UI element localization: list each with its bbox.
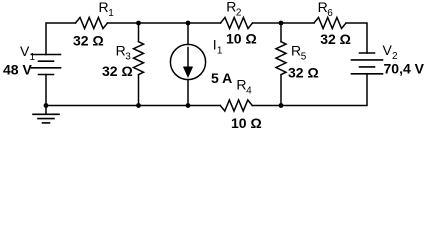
battery V2 plate long bottom (352, 73, 383, 75)
battery V1 top stub (45, 75, 47, 106)
svg-text:R: R (99, 0, 109, 15)
current source I1 arrow shaft (187, 48, 189, 69)
svg-text:R: R (291, 42, 301, 58)
battery V1 plate long (32, 67, 61, 69)
wire top-right corner R6 to V2 (346, 23, 367, 53)
wire R5 bottom lead (280, 76, 282, 106)
wire V2 bottom to bottom-right corner (252, 74, 367, 106)
resistor R3 (134, 42, 144, 75)
svg-text:3: 3 (125, 52, 131, 63)
node R3 bottom (136, 103, 141, 108)
current source I1 arrow head (183, 67, 193, 79)
svg-text:32 Ω: 32 Ω (102, 63, 133, 79)
svg-text:32 Ω: 32 Ω (288, 65, 319, 81)
node ground junction (44, 103, 49, 108)
svg-text:32 Ω: 32 Ω (320, 31, 351, 47)
svg-text:R: R (116, 43, 126, 59)
svg-text:V: V (383, 42, 393, 58)
node I1 bottom (186, 103, 191, 108)
svg-text:10 Ω: 10 Ω (231, 115, 262, 131)
svg-text:48 V: 48 V (3, 62, 32, 78)
wire I1 bottom lead (187, 80, 189, 106)
resistor R2 (221, 18, 253, 29)
svg-text:70,4 V: 70,4 V (384, 61, 425, 77)
ground bar 1 (33, 113, 59, 115)
ground bar 3 (43, 122, 50, 124)
node R5 top (279, 21, 284, 26)
resistor R6 (314, 18, 346, 29)
ground bar 2 (38, 118, 54, 120)
svg-text:R: R (226, 0, 236, 15)
battery V2 plate short (360, 66, 375, 68)
svg-text:6: 6 (327, 8, 333, 19)
resistor R1 (76, 18, 108, 29)
svg-text:5: 5 (301, 51, 307, 62)
node R3 top (136, 21, 141, 26)
svg-text:R: R (318, 0, 328, 15)
svg-text:1: 1 (108, 8, 114, 19)
svg-text:4: 4 (246, 85, 252, 96)
wire R1 to R2 (108, 22, 221, 24)
resistor R5 (276, 42, 286, 75)
node R5 bottom (279, 103, 284, 108)
svg-text:1: 1 (217, 46, 223, 57)
wire R3 top lead (138, 23, 140, 42)
wire top-left corner V1 to R1 (46, 23, 76, 55)
wire bottom left segment (46, 105, 220, 107)
svg-text:V: V (20, 43, 30, 59)
ground stub (45, 106, 47, 114)
wire R3 bottom lead (138, 76, 140, 106)
svg-text:10 Ω: 10 Ω (226, 30, 257, 46)
battery V1 plate short (39, 60, 54, 62)
svg-text:5 A: 5 A (211, 70, 232, 86)
battery V1 plate long top (32, 54, 61, 56)
svg-text:R: R (236, 76, 246, 92)
current source I1 circle (170, 44, 205, 79)
wire R5 top lead (280, 23, 282, 42)
wire I1 top lead (187, 23, 189, 44)
node I1 top (186, 21, 191, 26)
battery V2 plate long (352, 59, 383, 61)
svg-text:2: 2 (236, 8, 242, 19)
battery V1 plate short bottom (39, 74, 54, 76)
svg-text:32 Ω: 32 Ω (73, 33, 104, 49)
battery V2 plate short top (360, 52, 375, 54)
wire R2 to R6 (253, 22, 315, 24)
resistor R4 (220, 100, 252, 111)
